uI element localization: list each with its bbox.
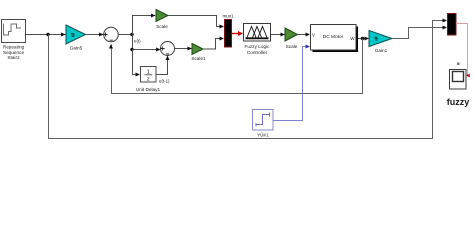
svg-text:YÜK1: YÜK1 xyxy=(257,132,269,138)
block Fuzzy Logic Controller U1 xyxy=(244,24,271,55)
svg-text:mux1: mux1 xyxy=(222,14,234,19)
block Unit Delay1 xyxy=(136,67,161,93)
wire e(t) up to Scale xyxy=(133,14,156,35)
svg-text:Gain5: Gain5 xyxy=(70,46,83,51)
wire sum1 output to node e(t) xyxy=(118,34,132,36)
junction reference branch xyxy=(46,33,49,36)
gain Gain1 xyxy=(369,31,392,54)
wire Scale1 to mux1 input 2 xyxy=(203,37,224,50)
svg-text:Controller: Controller xyxy=(247,50,268,55)
wire Unit Delay1 to sum2 bottom, node e(t-1) xyxy=(156,56,170,84)
scope fuzzy xyxy=(447,63,470,108)
wire Scale2 to DC Motor input V xyxy=(298,33,311,37)
block DC Motor xyxy=(311,25,359,53)
wire YUK1 to DC Motor load input (blue) xyxy=(273,45,310,121)
wire reference feedback to mux2 (down, across bottom, up) xyxy=(49,19,448,139)
gain Scale1 xyxy=(191,44,206,62)
mux mux2 (scope mux) xyxy=(448,14,457,36)
gain Gain5 xyxy=(66,25,86,51)
junction speed feedback xyxy=(361,37,364,40)
wire Scale to mux1 input 1 xyxy=(168,16,224,29)
block Repeating Sequence Stair2 xyxy=(2,20,26,61)
svg-text:DC Motor: DC Motor xyxy=(323,34,344,40)
svg-text:Gain1: Gain1 xyxy=(375,48,388,53)
wire Gain5 to sum1 xyxy=(86,34,100,36)
svg-text:fuzzy: fuzzy xyxy=(447,97,470,107)
sum junction sum2 xyxy=(161,42,175,56)
svg-text:Unit Delay1: Unit Delay1 xyxy=(136,87,161,92)
gain Scale2 xyxy=(285,28,298,49)
svg-text:Scale: Scale xyxy=(156,24,168,29)
mux mux1 xyxy=(222,14,234,48)
wire Gain1 to mux2 input 2 xyxy=(392,26,447,39)
svg-text:e(t-1): e(t-1) xyxy=(159,79,170,84)
svg-text:Repeating: Repeating xyxy=(3,45,25,50)
sum junction sum1 xyxy=(104,27,119,42)
wire Fuzzy Logic Controller to Scale2 xyxy=(271,33,285,37)
svg-text:z: z xyxy=(147,77,150,83)
wire e(t) down to Unit Delay1 xyxy=(133,50,141,77)
junction node e(t) xyxy=(130,33,141,44)
svg-text:e(t): e(t) xyxy=(134,38,141,43)
svg-text:Fuzzy Logic: Fuzzy Logic xyxy=(244,44,270,49)
wire RSS output to Gain5 and sum1 xyxy=(26,33,104,37)
svg-text:Scale1: Scale1 xyxy=(191,56,206,61)
wire mux2 to Scope fuzzy (pink) xyxy=(456,24,470,78)
wire mux1 to Fuzzy Logic Controller (red) xyxy=(232,31,244,36)
wire branch to sum2 xyxy=(132,48,161,52)
svg-text:Stair2: Stair2 xyxy=(7,55,20,60)
wire e(t) down to sum2 branch xyxy=(132,35,134,50)
junction branch to sum2 xyxy=(130,48,133,51)
wire sum2 to Scale1 xyxy=(175,47,193,51)
svg-text:Scale: Scale xyxy=(286,44,298,49)
step source YUK1 (load) xyxy=(253,110,274,138)
svg-text:V: V xyxy=(312,32,315,37)
wire DC Motor W output to Gain1 xyxy=(358,37,369,41)
gain Scale xyxy=(156,10,168,29)
wire speed feedback to sum1 minus input xyxy=(109,39,363,94)
